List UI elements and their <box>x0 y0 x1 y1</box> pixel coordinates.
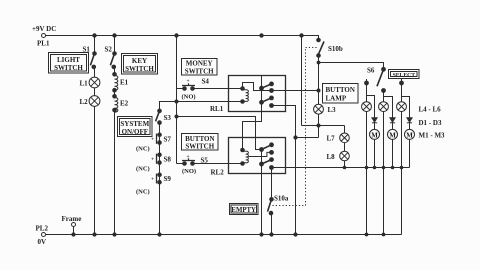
wire S10b down and to S6 <box>319 56 384 105</box>
switch S10a <box>268 195 289 215</box>
lamp column 3 <box>402 83 410 118</box>
svg-text:E2: E2 <box>120 100 129 108</box>
svg-text:+: + <box>151 177 154 183</box>
coil E1 <box>113 73 129 92</box>
relay RL2 coil <box>241 148 245 152</box>
svg-text:(NO): (NO) <box>182 94 196 101</box>
svg-text:L2: L2 <box>80 98 89 106</box>
relay RL1 <box>229 76 286 112</box>
svg-text:LIGHT: LIGHT <box>57 56 80 64</box>
pushbutton S4 (NO) <box>177 78 243 101</box>
node rail junction center column <box>175 34 178 37</box>
wire S3 to S7 <box>159 123 161 135</box>
wire S9 to 0V rail <box>159 182 161 234</box>
svg-text:PL1: PL1 <box>37 40 50 48</box>
lamp L2 <box>80 96 100 107</box>
box MONEY SWITCH <box>182 59 218 76</box>
svg-text:L3: L3 <box>328 106 337 114</box>
svg-text:M1 - M3: M1 - M3 <box>419 132 446 140</box>
wire L7 column <box>344 126 346 134</box>
diode D2 <box>390 118 395 130</box>
wire RL1 NC2 to 0V <box>272 106 296 235</box>
svg-text:+: + <box>187 79 190 85</box>
svg-text:L8: L8 <box>327 153 336 161</box>
svg-text:SWITCH: SWITCH <box>125 65 154 73</box>
svg-text:M: M <box>389 131 396 139</box>
wire S8 to S9 <box>159 163 161 175</box>
lamp column 1 <box>367 83 375 118</box>
wire RL2 feed <box>255 138 257 150</box>
svg-text:+: + <box>151 157 154 163</box>
svg-text:L4 - L6: L4 - L6 <box>419 106 442 114</box>
switch S3 <box>156 109 172 124</box>
motor M2 <box>388 129 398 139</box>
wire L3 to node <box>318 114 320 137</box>
wire L7 to L8 <box>344 143 346 152</box>
node RL1 label <box>210 105 224 113</box>
wire E1 to E2 <box>114 90 116 96</box>
switch S10b <box>317 38 343 57</box>
svg-text:E1: E1 <box>120 79 129 87</box>
svg-text:EMPTY: EMPTY <box>231 207 256 214</box>
relay RL1 coil <box>241 87 245 91</box>
svg-text:KEY: KEY <box>132 57 147 65</box>
svg-text:(NC): (NC) <box>136 146 150 153</box>
diode D1 <box>372 118 377 130</box>
selector contact left <box>365 79 369 85</box>
svg-text:D1 - D3: D1 - D3 <box>419 119 442 127</box>
svg-text:+9V DC: +9V DC <box>32 25 56 33</box>
svg-text:S9: S9 <box>164 175 172 183</box>
pushbutton S9 (NC) <box>136 173 171 196</box>
node junction L3 <box>317 124 320 127</box>
node junction wire A <box>175 115 178 118</box>
box SYSTEM ON/OFF <box>118 117 153 137</box>
lamp L4 <box>362 102 372 112</box>
linkage S10a dotted <box>273 205 306 207</box>
svg-text:S7: S7 <box>164 136 172 144</box>
node rail junction right drop <box>300 34 303 37</box>
svg-text:(NC): (NC) <box>136 166 150 173</box>
lamp column 2 <box>384 91 393 118</box>
relay RL2 bottom contact <box>260 162 264 166</box>
svg-text:(NO): (NO) <box>182 168 196 175</box>
relay RL1 top contact <box>260 86 264 90</box>
svg-text:SYSTEM: SYSTEM <box>120 120 149 128</box>
svg-text:S5: S5 <box>201 157 209 165</box>
coil E2 <box>113 95 129 113</box>
lamp L5 <box>379 102 389 112</box>
node 0V junctions <box>72 233 75 236</box>
wire A system feed to RL2 <box>177 117 262 150</box>
box BUTTON SWITCH <box>182 134 219 151</box>
wire RL2 coil to NC contact <box>249 152 270 156</box>
svg-text:+: + <box>151 137 154 143</box>
relay RL2 <box>229 138 286 174</box>
relay RL1 bottom contact <box>260 100 264 104</box>
svg-text:L1: L1 <box>80 79 89 87</box>
svg-text:SWITCH: SWITCH <box>54 64 83 72</box>
wire L8 to collector <box>344 161 346 168</box>
svg-text:ON/OFF: ON/OFF <box>122 128 148 136</box>
selector contact right <box>400 79 404 85</box>
pushbutton S7 (NC) <box>136 133 171 153</box>
node junction 295 <box>294 136 297 139</box>
svg-text:+: + <box>187 154 190 160</box>
linkage to S10b dashed <box>306 47 318 49</box>
wire RL1 feed vertical <box>261 76 263 112</box>
motor M3 <box>405 129 415 139</box>
wire 0V rail <box>46 234 402 236</box>
svg-text:SWITCH: SWITCH <box>185 68 214 76</box>
wire S7 to S8 <box>159 143 161 155</box>
svg-text:SWITCH: SWITCH <box>185 143 214 151</box>
wire center column <box>176 36 178 164</box>
svg-text:SELECT: SELECT <box>393 72 416 78</box>
svg-text:S10b: S10b <box>328 45 343 53</box>
svg-text:S3: S3 <box>164 114 172 122</box>
wire RL1 coil to NC contact <box>243 83 270 91</box>
wire right drop from rail <box>301 36 303 126</box>
switch S6 <box>367 67 385 87</box>
node collector junctions <box>343 166 346 169</box>
node RL2 label <box>211 169 225 177</box>
wire chain top <box>160 102 243 111</box>
svg-text:Frame: Frame <box>62 215 82 223</box>
relay RL2 top contact <box>260 148 264 152</box>
box EMPTY <box>230 204 259 215</box>
wire RL1 to RL2 coil <box>243 112 262 151</box>
svg-text:0V: 0V <box>38 238 47 246</box>
switch S2 <box>105 36 117 69</box>
diode D3 <box>407 118 412 130</box>
box LIGHT SWITCH <box>49 53 89 74</box>
svg-text:PL2: PL2 <box>36 225 49 233</box>
svg-text:S6: S6 <box>367 67 375 75</box>
node junction button lamp wire <box>317 89 320 92</box>
node PL2 terminal <box>42 233 46 237</box>
svg-text:M: M <box>406 131 413 139</box>
node rail junction E column <box>113 34 116 37</box>
wire RL2 NC2 down to S10a <box>271 168 273 200</box>
wire +9V rail <box>46 36 319 41</box>
svg-text:MONEY: MONEY <box>186 60 213 68</box>
lamp L8 <box>327 151 350 161</box>
box KEY SWITCH <box>122 54 158 75</box>
selector contact middle <box>382 89 386 93</box>
linkage vertical dashed <box>305 48 307 206</box>
svg-text:LAMP: LAMP <box>326 94 347 102</box>
svg-text:S4: S4 <box>202 78 210 86</box>
node labels right <box>419 106 446 140</box>
svg-text:S2: S2 <box>105 46 113 54</box>
pushbutton S5 (NO) <box>177 154 243 175</box>
wire S10a to 0V <box>271 213 273 234</box>
svg-text:RL1: RL1 <box>210 105 224 113</box>
wire RL1 NC1 to lamp column <box>272 90 319 92</box>
svg-text:S8: S8 <box>164 156 172 164</box>
lamp L3 <box>314 104 337 114</box>
svg-text:BUTTON: BUTTON <box>326 86 355 94</box>
switch S1 <box>83 36 97 69</box>
lamp L7 <box>327 133 350 143</box>
pushbutton S8 (NC) <box>136 153 171 173</box>
wire S2 to E1 <box>114 67 116 74</box>
svg-text:S10a: S10a <box>274 195 289 203</box>
node PL1 label <box>32 25 56 48</box>
wire node cross <box>296 126 345 138</box>
lamp L6 <box>397 102 407 112</box>
node rail junction RL1 feed <box>260 34 263 37</box>
wire E2 to 0V rail <box>114 110 116 235</box>
wire lamp columns to 0V <box>367 168 402 235</box>
svg-text:L7: L7 <box>327 135 336 143</box>
svg-text:RL2: RL2 <box>211 169 225 177</box>
wire RL2 NC2 collector <box>272 167 410 169</box>
wire RL2 common to 0V <box>261 164 263 235</box>
node Frame terminal <box>62 215 82 235</box>
wire RL1 coil bottom feed <box>177 101 243 103</box>
wire S1 to L1 <box>94 67 96 77</box>
svg-text:(NC): (NC) <box>136 189 150 196</box>
node junction chain/center <box>175 100 178 103</box>
motor M1 <box>370 129 380 139</box>
box SELECT <box>389 70 420 79</box>
wire L1 to L2 <box>94 88 96 96</box>
node rail junction L1 column <box>93 34 96 37</box>
box BUTTON LAMP <box>323 84 359 104</box>
svg-text:M: M <box>371 131 378 139</box>
lamp L1 <box>80 77 100 88</box>
wire L2 to 0V rail <box>94 106 96 234</box>
node PL1 terminal <box>42 34 46 38</box>
